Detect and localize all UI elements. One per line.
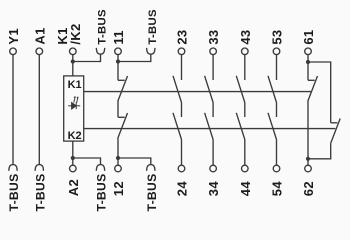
NC contact K1 row stub (61)	[308, 79, 315, 81]
NC contact K1 row stub (11)	[118, 79, 125, 81]
svg-text:12: 12	[111, 181, 126, 196]
terminal 11	[115, 48, 122, 55]
svg-text:34: 34	[206, 181, 221, 197]
svg-text:K1: K1	[68, 79, 82, 91]
wire K1/K2 to coil box	[72, 55, 74, 76]
K2 actuation rail	[84, 128, 336, 130]
svg-text:Y1: Y1	[6, 28, 21, 45]
svg-text:23: 23	[175, 30, 190, 45]
wire 11 down	[117, 55, 119, 81]
junction 61 branch	[306, 60, 310, 64]
NO contact K1 row blade (43)	[236, 76, 245, 103]
terminal 62	[305, 165, 312, 172]
wire 43 down	[244, 55, 246, 80]
NC contact K1 row blade (11)	[118, 76, 128, 101]
terminal 44	[242, 165, 249, 172]
junction A2 branch	[71, 156, 75, 160]
NO contact K2 row blade (23)	[173, 113, 182, 140]
NO contact K1 row blade (53)	[268, 76, 277, 103]
K1 actuation rail	[84, 91, 311, 93]
wire between contacts (23-24)	[181, 103, 183, 118]
wire branch 11 to top T-BUS 2	[118, 54, 151, 62]
LED indicator	[68, 96, 80, 109]
wire K2 contact to 62	[308, 144, 331, 159]
terminal 43	[242, 48, 249, 55]
wire coil box to A2	[72, 141, 74, 165]
wire to 24	[181, 140, 183, 166]
svg-text:44: 44	[238, 181, 253, 197]
svg-text:24: 24	[175, 181, 190, 197]
junction 62 merge	[306, 157, 310, 161]
wire 23 down	[181, 55, 183, 80]
svg-text:K2: K2	[68, 130, 82, 142]
wire 61 contact down to 62	[307, 101, 309, 165]
svg-text:T-BUS: T-BUS	[7, 173, 21, 211]
junction 12 branch	[116, 156, 120, 160]
wire 53 down	[276, 55, 278, 80]
svg-text:T-BUS: T-BUS	[147, 9, 159, 45]
wire branch 61 to K2 contact	[308, 62, 331, 123]
wire to 54	[276, 140, 278, 166]
svg-text:T-BUS: T-BUS	[97, 9, 109, 45]
svg-text:T-BUS: T-BUS	[33, 173, 47, 211]
terminal K1/K2	[70, 48, 77, 55]
wire 33 down	[212, 55, 214, 80]
terminal 53	[273, 48, 280, 55]
svg-text:A2: A2	[66, 179, 81, 196]
terminal A1	[36, 48, 43, 55]
wire branch A2 to bottom T-BUS 3	[73, 158, 101, 165]
wire between contacts (43-44)	[244, 103, 246, 118]
junction 11 branch	[116, 59, 120, 63]
NO contact K2 row blade (43)	[236, 113, 245, 140]
NO contact K1 row blade (23)	[173, 76, 182, 103]
wire between contacts (53-54)	[276, 103, 278, 118]
wire branch 12 to bottom T-BUS 4	[118, 158, 151, 165]
T-BUS socket bottom 4	[147, 165, 155, 171]
terminal 33	[210, 48, 217, 55]
wire between contacts (33-34)	[212, 103, 214, 118]
wire 61 down	[307, 55, 309, 81]
wire to 34	[212, 140, 214, 166]
T-BUS socket bottom 2	[35, 165, 43, 171]
terminal Y1	[10, 48, 17, 55]
terminal 23	[178, 48, 185, 55]
svg-text:33: 33	[206, 30, 221, 45]
NC contact K2 row stub (62)	[331, 122, 338, 124]
svg-text:43: 43	[238, 30, 253, 45]
NC contact K2 row blade (62)	[331, 119, 341, 144]
svg-text:T-BUS: T-BUS	[95, 173, 109, 211]
svg-text:A1: A1	[32, 27, 47, 44]
NC contact K2 row stub (11)	[118, 116, 125, 118]
terminal 54	[273, 165, 280, 172]
terminal 24	[178, 165, 185, 172]
wire branch to top T-BUS 1	[73, 54, 101, 62]
terminal 34	[210, 165, 217, 172]
T-BUS socket top 1	[96, 48, 104, 54]
svg-text:11: 11	[111, 30, 126, 44]
T-BUS socket bottom 3	[96, 165, 104, 171]
junction K1/K2 branch	[71, 59, 75, 63]
svg-text:54: 54	[270, 181, 285, 197]
wire between contacts (11-12)	[117, 101, 119, 117]
NO contact K2 row blade (53)	[268, 113, 277, 140]
NO contact K1 row blade (33)	[205, 76, 214, 103]
wire to 12	[117, 138, 119, 165]
svg-text:53: 53	[270, 30, 285, 45]
relay coil box K1/K2	[64, 76, 84, 141]
terminal A2	[70, 165, 77, 172]
terminal 61	[305, 48, 312, 55]
T-BUS socket bottom 1	[9, 165, 17, 171]
wire to 44	[244, 140, 246, 166]
wire Y1 to bottom T-BUS	[12, 55, 14, 165]
terminal 12	[115, 165, 122, 172]
svg-text:62: 62	[301, 181, 316, 196]
T-BUS socket top 2	[147, 48, 155, 54]
svg-text:/K2: /K2	[68, 23, 83, 44]
svg-text:T-BUS: T-BUS	[145, 173, 159, 211]
svg-text:61: 61	[301, 30, 316, 45]
wire A1 to bottom T-BUS	[38, 55, 40, 165]
NC contact K1 row blade (61)	[308, 76, 318, 101]
NO contact K2 row blade (33)	[205, 113, 214, 140]
NC contact K2 row blade (11)	[118, 113, 128, 138]
